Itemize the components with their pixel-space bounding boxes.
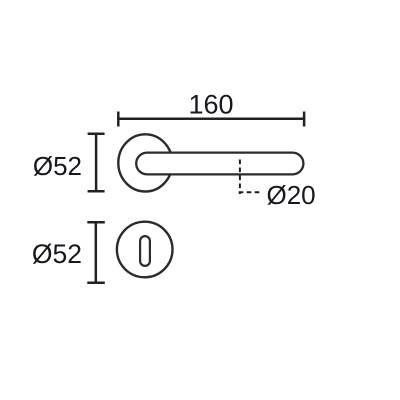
lever handle bbox=[136, 153, 303, 175]
svg-text:160: 160 bbox=[188, 90, 233, 120]
dim line Ø52 escutcheon bbox=[87, 221, 105, 284]
centerline leader Ø20 (dashed) bbox=[239, 160, 262, 195]
svg-text:Ø52: Ø52 bbox=[32, 239, 82, 269]
escutcheon circle bbox=[117, 222, 173, 278]
dimension line 160 bbox=[117, 112, 305, 127]
rose circle bbox=[118, 134, 172, 191]
keyhole slot bbox=[140, 236, 150, 266]
dim line Ø52 rose bbox=[88, 133, 105, 193]
svg-text:Ø52: Ø52 bbox=[33, 151, 82, 181]
svg-text:Ø20: Ø20 bbox=[267, 180, 316, 210]
